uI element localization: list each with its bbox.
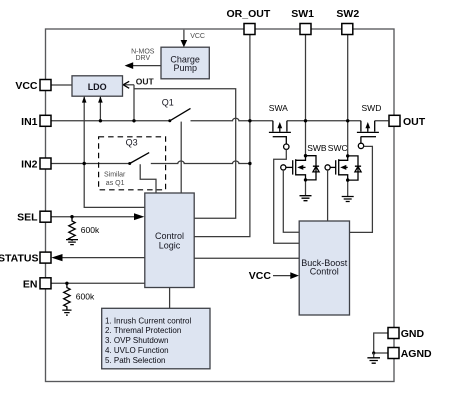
svg-text:as Q1: as Q1 [106,180,125,187]
svg-text:600k: 600k [81,225,100,235]
pin SEL [40,211,51,222]
wire SW1 vertical [305,35,307,156]
svg-text:AGND: AGND [401,348,432,360]
svg-text:SEL: SEL [17,212,38,224]
wire N-MOS DRV arrow from charge pump [132,65,162,67]
svg-text:SW2: SW2 [336,8,359,20]
svg-text:Q1: Q1 [162,98,174,108]
svg-text:Q3: Q3 [126,138,138,148]
charge pump U-CP [161,47,209,79]
control logic U-CL [145,193,194,288]
svg-text:SW1: SW1 [291,8,314,20]
wire SWD gate to buck-boost [350,146,373,232]
wire GND to ground [374,333,389,353]
svg-text:GND: GND [401,328,425,340]
ground (SWC source) [342,180,354,201]
pin IN1 [40,115,51,126]
wire VCC arrow into buck-boost [273,275,292,277]
pin GND [388,328,399,339]
wire SWC gate to buck-boost [327,170,329,221]
pin IN2 [40,158,51,169]
transistor SWA [269,121,291,150]
pin EN [40,278,51,289]
svg-text:SWC: SWC [328,143,348,153]
pin OUT [389,115,400,126]
chip outer border [46,29,395,382]
svg-text:SWD: SWD [362,103,382,113]
svg-text:OR_OUT: OR_OUT [227,8,271,20]
pin SW1 [300,24,311,35]
wire control logic to notes [169,288,171,309]
svg-text:DRV: DRV [135,55,150,62]
switch Q1 [168,108,190,193]
wire AGND to ground [374,352,389,354]
wire OR node sense to control logic [194,35,250,237]
wire SWD to OUT pin [348,120,389,122]
svg-text:VCC: VCC [249,270,272,282]
resistor R-SEL 600k [66,217,78,245]
svg-text:OUT: OUT [136,76,155,86]
wire IN2 to control logic [84,164,145,208]
wire SWA gate to buck-boost [274,149,300,243]
svg-text:IN1: IN1 [21,116,38,128]
junction dots [99,119,102,122]
svg-text:Control: Control [155,231,184,241]
svg-text:SWB: SWB [307,143,327,153]
resistor R-EN 600k [62,283,71,315]
wire LDO input from IN2 node [83,97,85,164]
wire control logic to buck-boost [194,257,299,259]
ground (SWB source) [300,180,312,201]
svg-text:VCC: VCC [15,80,38,92]
wire VCC stub into charge pump [183,30,185,41]
LDO U-LDO [72,76,123,96]
wire IN2 horizontal rail [51,161,250,164]
svg-text:4. UVLO Function: 4. UVLO Function [105,346,169,355]
svg-text:IN2: IN2 [21,159,38,171]
wire EN to control logic [51,282,145,284]
svg-text:OUT: OUT [403,116,426,128]
pin AGND [388,348,399,359]
ground (GND/AGND) [367,353,380,363]
svg-text:5. Path Selection: 5. Path Selection [105,356,165,365]
transistor SWB [281,156,319,180]
svg-text:Pump: Pump [173,63,197,73]
pin SW2 [342,24,353,35]
wire OUT feed to LDO with open arrow [123,84,134,86]
buck-boost U-BB [299,221,349,315]
svg-text:1. Inrush Current control: 1. Inrush Current control [105,316,191,325]
wire SWB gate to buck-boost [283,170,299,232]
switch Q3 [128,153,156,193]
svg-text:2. Thremal Protection: 2. Thremal Protection [105,326,181,335]
wire SEL to control logic with arrow [51,216,135,218]
wire STATUS from control logic [62,257,145,259]
svg-text:Control: Control [310,267,339,277]
wire LDO input from IN1 node [99,97,101,121]
svg-text:LDO: LDO [88,82,107,92]
svg-text:Similar: Similar [104,172,126,179]
pin STATUS [40,252,51,263]
Q3 dashed block [99,137,166,190]
svg-text:3. OVP Shutdown: 3. OVP Shutdown [105,336,168,345]
wire Q1 bypass rect / gate drive [134,85,236,218]
svg-text:STATUS: STATUS [0,253,39,265]
svg-text:600k: 600k [76,292,95,302]
svg-text:EN: EN [23,278,38,290]
pin OR_OUT [244,24,255,35]
svg-text:Logic: Logic [159,240,181,250]
svg-text:VCC: VCC [190,33,205,40]
notes box [102,308,210,369]
svg-text:SWA: SWA [269,103,288,113]
transistor SWC [325,156,361,180]
pin VCC [40,80,51,91]
wire IN1 horizontal rail [51,118,348,120]
wire SW2 vertical [347,35,349,156]
transistor SWD [357,121,379,149]
wire VCC pin to LDO [51,84,72,86]
